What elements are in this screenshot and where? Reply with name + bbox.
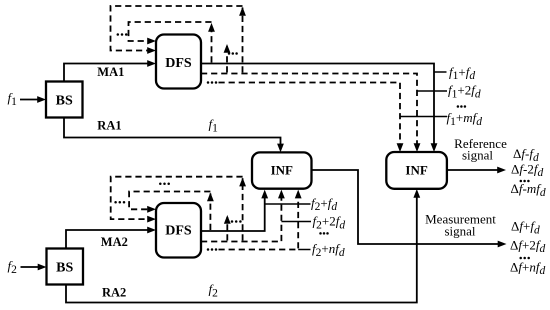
svg-text:DFS: DFS <box>165 224 192 239</box>
svg-text:BS: BS <box>56 260 73 275</box>
svg-text:RA1: RA1 <box>97 119 121 133</box>
svg-text:signal: signal <box>444 224 475 239</box>
svg-text:signal: signal <box>462 148 493 163</box>
svg-text:RA2: RA2 <box>102 286 126 300</box>
svg-text:MA1: MA1 <box>97 65 124 79</box>
svg-text:INF: INF <box>271 162 293 177</box>
svg-text:BS: BS <box>56 93 73 108</box>
svg-text:MA2: MA2 <box>101 235 128 249</box>
svg-text:INF: INF <box>405 162 427 177</box>
svg-text:DFS: DFS <box>165 56 192 71</box>
